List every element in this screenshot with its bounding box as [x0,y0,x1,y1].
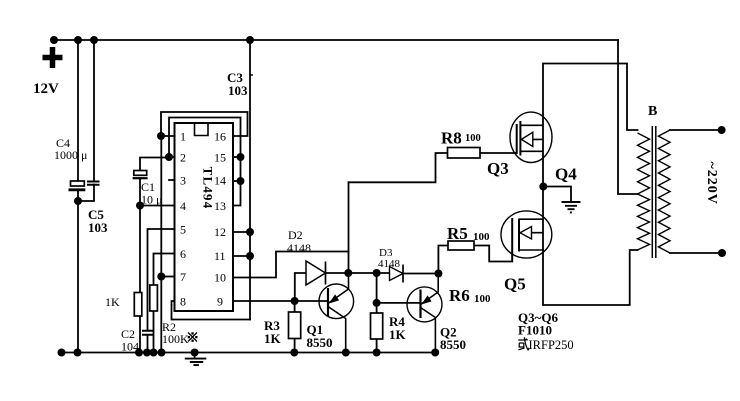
svg-text:1000 μ: 1000 μ [54,148,87,162]
wire R8 right to Q3 gate [480,152,517,154]
node C4 bottom rail [74,349,82,357]
svg-text:12: 12 [214,225,226,239]
wire VCC return to pin 8 [172,301,251,320]
wire secondary bottom to terminal [670,252,722,254]
wire pin 14 stub [233,180,241,182]
node R3 bottom rail [290,349,298,357]
wire C5 branch upper [93,40,95,182]
node R4 bottom rail [373,349,381,357]
svg-text:R8: R8 [441,129,462,148]
wire A1 to R8 left [349,153,448,182]
svg-text:1: 1 [180,130,186,144]
wire R2 bottom to rail [153,311,155,353]
node pin15 [237,153,245,161]
node pin14 [237,177,245,185]
resistor R3 body [289,312,301,339]
wire pin 3 stub [169,179,175,181]
svg-text:1K: 1K [105,295,120,309]
node Q2 base [373,299,381,307]
svg-text:4: 4 [180,199,186,213]
capacitor C2 plates [142,331,153,335]
wire A2 up to R5 left [438,246,448,274]
svg-text:8550: 8550 [307,335,333,350]
wire Q5 source to transformer bottom [543,250,638,305]
svg-text:IRFP250: IRFP250 [529,338,574,352]
svg-text:4148: 4148 [378,258,401,270]
wire Q3 drain to transformer top [543,64,638,187]
capacitor C3 tick on VCC line [250,74,253,76]
wire pin 4 to C1 [140,205,175,207]
svg-text:11: 11 [214,249,226,263]
wire pin 11 stub [233,255,250,257]
svg-text:~220V: ~220V [704,162,719,205]
op-amp U1 TL494 IC body [175,123,234,311]
capacitor C5 plates [87,182,100,185]
capacitor C1 plates [133,171,148,179]
svg-text:3: 3 [180,174,186,188]
wire C1 top lead to pin 2 net [140,158,169,171]
node C2 bottom rail [143,349,151,357]
wire pin 12 stub [233,231,250,233]
wire D3 node to R4 [376,273,378,313]
node pin12 [246,228,254,236]
svg-text:TL494: TL494 [201,167,216,210]
svg-text:16: 16 [214,130,226,144]
node pin1 [157,132,165,140]
wire pin 7 stub [161,276,175,278]
svg-text:R5: R5 [447,224,468,243]
transformer B core [652,126,656,258]
wire pin 5 to C2 [148,229,176,330]
svg-text:5: 5 [180,223,186,237]
node A2 Q2 emitter [434,270,442,278]
IC notch [195,123,209,136]
wire Q2 base [377,302,421,304]
svg-text:6: 6 [180,247,186,261]
node D3 anode [373,269,381,277]
wire pin 10 up-and-over [233,252,349,278]
diode D3 [390,265,404,283]
node pin4-C1 [136,202,144,210]
svg-text:F1010: F1010 [518,323,552,338]
node pin2 [165,153,173,161]
wire R3 top lead [294,301,296,312]
node 1K bottom rail [135,349,143,357]
wire ground line pin1-pin7 to rail [160,136,162,353]
svg-text:2: 2 [180,151,186,165]
transformer secondary winding [658,130,670,253]
node Q2 collector rail end [431,349,439,357]
svg-text:B: B [648,104,657,119]
resistor R5 body [448,241,474,250]
node Q1 collector rail [342,349,350,357]
svg-text:100: 100 [465,133,481,144]
svg-text:10 μ: 10 μ [141,193,162,207]
wire D3 cathode to node A2 [403,273,438,275]
svg-text:100: 100 [473,231,490,243]
wire Q4 node to ground [544,187,571,202]
svg-text:7: 7 [180,270,186,284]
ground at bottom rail [185,353,207,366]
wire right drop from rail to transformer center tap [618,40,638,194]
svg-text:103: 103 [228,83,248,98]
wire C1 node down to resistor 1K [139,206,141,293]
wire node A1 vertical [348,182,350,273]
wire C1 bottom lead [139,178,141,206]
svg-text:100K: 100K [162,332,189,346]
resistor R2 body [150,285,158,311]
transistor Q3 MOSFET [510,112,552,162]
svg-text:Q5: Q5 [504,275,526,294]
node pin11 [246,252,254,260]
wire bottom ground rail [62,352,436,354]
wire R4 bottom to rail [376,339,378,353]
node pin7 [157,273,165,281]
wire A1 to D3 anode [348,272,389,274]
svg-text:104: 104 [121,340,139,354]
wire C4 branch lower to bottom rail [77,191,79,353]
wire pin 9 to Q1 base [233,300,328,302]
node C4 top [74,36,82,44]
glyph CJK huo before IRFP250 [518,337,529,350]
wire D2 cathode to node A1 [326,272,349,274]
resistor R4 body [371,313,383,339]
svg-text:Q4: Q4 [555,165,577,184]
node secondary bottom terminal [718,249,726,257]
node rail bottom left terminal [58,349,66,357]
node Q3-Q5 midpoint [539,183,547,191]
svg-text:D2: D2 [288,228,303,242]
wire pin 1 loop to pin 16 [161,112,248,136]
wire VCC vertical from top rail [249,40,251,320]
svg-text:4148: 4148 [287,241,311,255]
svg-text:1K: 1K [389,327,407,342]
svg-text:8550: 8550 [440,337,466,352]
svg-text:R6: R6 [449,286,470,305]
svg-text:12V: 12V [33,81,59,97]
capacitor C4 electrolytic plates [69,181,86,190]
wire pin 15 stub [233,156,241,158]
svg-text:1K: 1K [264,331,282,346]
wire pin 6 to R2 [154,254,176,286]
battery plus symbol [43,47,63,68]
transistor Q2 [407,274,442,353]
node secondary top terminal [718,126,726,134]
svg-text:9: 9 [217,295,223,309]
wire pin 2 loop to pin 15 [169,118,241,158]
node ground symbol rail [191,349,199,357]
transformer primary winding [638,133,650,250]
wire C2 bottom to rail [147,335,149,353]
svg-text:Q3: Q3 [487,159,509,178]
wire R5 right to Q5 gate [474,246,512,262]
ground at Q4 node [562,202,581,212]
svg-text:103: 103 [88,220,108,235]
transistor Q5 MOSFET [501,211,552,262]
node C4-C5 join [74,197,82,205]
wire Q5 drain up [542,187,544,251]
transistor Q1 [319,273,354,353]
node gnd line bottom rail [158,349,166,357]
node rail left terminal [50,36,58,44]
svg-text:15: 15 [214,151,226,165]
node C5 top [90,36,98,44]
wire secondary top to terminal [670,129,722,131]
node VCC top [246,36,254,44]
wire pins 15-14-13 chain [233,157,241,206]
node A1 Q1 emitter [344,269,352,277]
svg-text:100: 100 [474,293,491,305]
wire R3 bottom to rail [294,339,296,353]
svg-text:8: 8 [180,295,186,309]
resistor 1K body [134,293,142,317]
node R2 bottom rail [150,349,158,357]
diode D2 [306,261,326,285]
glyph reference mark after 100K [188,332,198,342]
wire 1K bottom to rail [139,316,141,353]
resistor R8 body [448,148,481,159]
svg-text:10: 10 [214,271,226,285]
wire C5 branch lower joining C4 line [78,185,94,202]
node Q1 base [291,297,299,305]
wire top +12V rail [54,39,618,41]
wire D2 anode riser [295,273,306,301]
wire C4 branch upper [77,40,79,181]
